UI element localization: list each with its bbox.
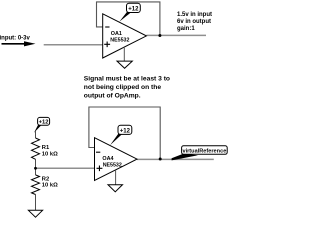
svg-text:10 kΩ: 10 kΩ <box>42 183 58 189</box>
svg-text:NE5532: NE5532 <box>103 163 122 169</box>
svg-text:R2: R2 <box>42 176 49 182</box>
svg-text:NE5532: NE5532 <box>110 37 129 43</box>
svg-text:OA1: OA1 <box>111 31 122 37</box>
svg-text:+12: +12 <box>120 129 131 135</box>
svg-text:+12: +12 <box>128 7 139 13</box>
svg-text:10 kΩ: 10 kΩ <box>42 151 58 157</box>
svg-text:input: 0-3v: input: 0-3v <box>0 35 30 41</box>
svg-text:OA4: OA4 <box>102 156 113 162</box>
svg-text:output of OpAmp.: output of OpAmp. <box>84 93 141 100</box>
svg-text:gain:1: gain:1 <box>177 26 195 32</box>
svg-text:1.5v in input: 1.5v in input <box>177 12 212 18</box>
svg-text:virtualReference: virtualReference <box>182 149 226 155</box>
svg-text:6v in output: 6v in output <box>177 19 211 25</box>
svg-text:+12: +12 <box>39 120 49 126</box>
svg-text:Signal must be at least 3 to: Signal must be at least 3 to <box>84 76 170 83</box>
svg-text:R1: R1 <box>42 145 50 151</box>
svg-text:not being clipped on the: not being clipped on the <box>84 84 162 91</box>
